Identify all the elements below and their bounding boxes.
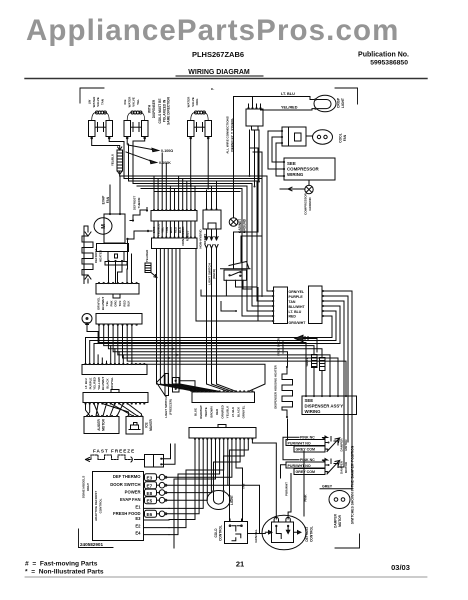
svg-text:TAN: TAN xyxy=(289,300,296,304)
wire LT. BLU to crisp light xyxy=(234,92,316,104)
svg-text:YEL/BLU: YEL/BLU xyxy=(111,154,115,166)
wire central verticals P3 to P7 xyxy=(157,249,220,392)
connector P9A xyxy=(272,287,287,324)
splice S3 (hatched) xyxy=(145,263,157,278)
svg-text:E5: E5 xyxy=(147,498,153,503)
svg-text:WHITE: WHITE xyxy=(204,407,208,416)
bottom rule xyxy=(25,576,427,578)
wire module plug continuations xyxy=(205,245,236,392)
connector P9B xyxy=(309,286,324,324)
thermistor sensor xyxy=(82,314,98,343)
wire fast freeze out xyxy=(161,444,175,464)
wire P9A row7 from center xyxy=(196,249,273,321)
wire P9B nested loops to lower right xyxy=(323,291,352,486)
connector P4 (9-pin) xyxy=(96,282,139,298)
connector P8 (15-pin) xyxy=(189,425,256,440)
svg-text:RED: RED xyxy=(215,409,219,415)
svg-text:5995386850: 5995386850 xyxy=(370,60,408,67)
defrost heater element xyxy=(82,226,93,284)
svg-text:PUR/WHT NO: PUR/WHT NO xyxy=(288,464,311,468)
cabinet ground symbol xyxy=(229,97,238,227)
connector P6A (15-pin) xyxy=(82,363,147,375)
svg-text:YEL/RED: YEL/RED xyxy=(145,250,149,263)
svg-text:YEL/BLK: YEL/BLK xyxy=(226,405,230,418)
svg-text:GROUND: GROUND xyxy=(242,218,246,233)
svg-text:DOOR SWITCH: DOOR SWITCH xyxy=(110,482,140,487)
labels P7 wires xyxy=(194,405,246,419)
svg-text:MOTOR: MOTOR xyxy=(344,439,348,451)
wire module outputs with arrows xyxy=(205,229,218,240)
svg-text:E6: E6 xyxy=(147,512,153,517)
svg-text:HEATER: HEATER xyxy=(98,249,102,262)
wire grn/yel to defrost xyxy=(228,485,265,533)
defrost thermostat xyxy=(130,208,148,222)
svg-text:LT. BLU: LT. BLU xyxy=(231,407,235,418)
svg-text:TAN: TAN xyxy=(242,484,246,490)
svg-text:BLK: BLK xyxy=(127,300,131,307)
svg-text:PURPLE: PURPLE xyxy=(289,295,304,299)
cold control xyxy=(225,519,248,544)
wire pink vertical xyxy=(303,451,305,516)
wire P6A pins up xyxy=(98,346,123,364)
svg-text:WHITE: WHITE xyxy=(305,357,309,366)
see dispenser assy wiring box xyxy=(302,395,357,415)
svg-text:03/03: 03/03 xyxy=(391,563,410,572)
svg-text:WIRING DIAGRAM: WIRING DIAGRAM xyxy=(188,69,250,76)
damper motor xyxy=(329,491,350,509)
svg-text:ORG/WHT: ORG/WHT xyxy=(289,321,307,325)
wire bus lines xyxy=(120,176,267,192)
ice maker box xyxy=(126,415,143,434)
svg-text:0-100K: 0-100K xyxy=(159,161,171,165)
svg-text:DISPENSER ASS'Y: DISPENSER ASS'Y xyxy=(305,404,344,409)
wire right verticals bus-bends to P9A xyxy=(242,176,273,316)
site watermark header xyxy=(26,14,399,48)
svg-text:ORN/RED: ORN/RED xyxy=(220,405,224,418)
svg-text:BLACK: BLACK xyxy=(236,406,240,417)
svg-text:PINK NC: PINK NC xyxy=(300,435,315,439)
light switch (freezer) xyxy=(157,374,196,396)
svg-text:BLUE: BLUE xyxy=(194,408,198,416)
svg-text:GREY COM: GREY COM xyxy=(296,448,316,452)
connector P2 (11-pin) xyxy=(151,209,197,221)
svg-text:E2: E2 xyxy=(135,524,141,529)
wire P6B to auger/ice maker crisscross xyxy=(86,404,142,417)
svg-text:GROUND: GROUND xyxy=(281,340,285,354)
svg-text:ORN/YEL: ORN/YEL xyxy=(242,405,246,418)
svg-text:FAST FREEZE: FAST FREEZE xyxy=(93,449,135,454)
connector J1 (top, to crisp light) xyxy=(246,104,263,130)
wire valve1 left through fuse xyxy=(92,138,120,150)
svg-text:E3: E3 xyxy=(135,516,141,521)
splice S2 (hatched) xyxy=(320,358,326,397)
dispenser housing heater element xyxy=(282,366,293,418)
connector P6B (15-pin) xyxy=(83,390,148,405)
wire evap fan to bus xyxy=(110,177,120,215)
water valve 3 (WATER VALVE ORG) xyxy=(187,96,212,139)
svg-text:COMPRESSOR: COMPRESSOR xyxy=(287,167,320,172)
defrost control (timer) xyxy=(262,515,306,550)
wire YEL/RED to crisp light xyxy=(261,104,316,110)
compressor relay box xyxy=(281,127,306,146)
connector P7 (15-pin) xyxy=(192,390,255,402)
connector P5 (9-pin) xyxy=(96,314,142,326)
drawing sheet corner mark top-left xyxy=(80,88,104,103)
connector P3 (11-pin) xyxy=(152,236,198,248)
fast freeze switch (dashed) xyxy=(86,455,132,460)
coil resistance callout 0-100K xyxy=(126,152,171,165)
svg-text:GREY: GREY xyxy=(322,485,333,489)
wire connector P2 pins up to bus xyxy=(154,176,195,210)
svg-text:E7: E7 xyxy=(147,483,153,488)
evaporator fan motor xyxy=(94,213,129,265)
svg-text:GRN/YEL: GRN/YEL xyxy=(254,529,258,543)
svg-text:R19820: R19820 xyxy=(185,230,189,241)
svg-text:EVAP FAN: EVAP FAN xyxy=(120,497,141,502)
svg-text:LT. BLU: LT. BLU xyxy=(289,310,302,314)
svg-text:TAN: TAN xyxy=(100,99,104,105)
svg-text:c.: c. xyxy=(211,86,214,91)
crisp light lamp xyxy=(314,95,336,112)
wire connector J1 drops to bus xyxy=(250,130,260,187)
svg-text:E1: E1 xyxy=(135,504,141,509)
see compressor wiring box xyxy=(283,158,335,180)
svg-text:LIGHT: LIGHT xyxy=(230,495,234,505)
svg-text:FAN: FAN xyxy=(343,134,347,141)
svg-text:WIRING: WIRING xyxy=(287,172,304,177)
wire P2 to P3 verticals xyxy=(154,221,195,237)
light switch (refrigerator) xyxy=(221,262,258,297)
svg-text:SEE: SEE xyxy=(287,161,296,166)
top rule xyxy=(25,78,427,80)
module (non-hybrid) xyxy=(203,182,221,230)
svg-text:M: M xyxy=(101,224,107,229)
svg-text:YEL/RED: YEL/RED xyxy=(281,106,298,110)
svg-text:MOTOR: MOTOR xyxy=(338,514,342,527)
svg-text:THERM: THERM xyxy=(137,197,141,208)
wire freezer door ground connect xyxy=(313,339,317,353)
svg-text:SWITCHES SHOWN IN THE ‘DAMPER’: SWITCHES SHOWN IN THE ‘DAMPER’ POSITION xyxy=(351,445,355,524)
svg-text:SAME DIRECTION: SAME DIRECTION xyxy=(167,96,171,124)
splice S1 (hatched) xyxy=(312,355,318,397)
junction dots on mid bus xyxy=(156,342,158,344)
svg-text:E4: E4 xyxy=(135,531,141,536)
title underline xyxy=(176,75,263,77)
svg-text:DEF THERMO: DEF THERMO xyxy=(113,474,141,479)
svg-text:E3: E3 xyxy=(147,475,153,480)
svg-text:240582901: 240582901 xyxy=(80,542,103,547)
wire grey to damper motor xyxy=(320,486,352,489)
wire valve3 drops to bus xyxy=(191,138,209,189)
svg-text:(REFR): (REFR) xyxy=(212,269,216,279)
auger motor box xyxy=(84,415,119,434)
svg-text:CONTROL: CONTROL xyxy=(98,498,102,513)
svg-text:YEL: YEL xyxy=(136,99,140,105)
svg-text:SEE: SEE xyxy=(305,398,314,403)
svg-text:POWER: POWER xyxy=(125,490,141,495)
svg-text:R19820: R19820 xyxy=(203,233,207,244)
wire adc plain outputs xyxy=(144,508,170,534)
freezer light lamp xyxy=(207,490,230,510)
wire relay to see-box xyxy=(268,131,284,176)
svg-text:ONLY: ONLY xyxy=(86,483,90,491)
svg-text:* = Non-Illustrated Parts: * = Non-Illustrated Parts xyxy=(25,569,104,576)
svg-text:LIGHT: LIGHT xyxy=(341,98,345,108)
svg-text:E8: E8 xyxy=(147,491,153,496)
svg-text:WIRING: WIRING xyxy=(305,409,322,414)
svg-text:RED/WHT: RED/WHT xyxy=(199,405,203,419)
water valve 2 (ICE WATER VALVE YEL) xyxy=(123,96,148,139)
wire valve1 right to bus xyxy=(109,138,124,179)
svg-text:PUR/WHT: PUR/WHT xyxy=(285,482,289,496)
drawing number 240582901 xyxy=(79,529,114,548)
svg-text:RED: RED xyxy=(289,314,297,318)
svg-text:MOTOR: MOTOR xyxy=(344,461,348,473)
svg-text:BLU/WHT: BLU/WHT xyxy=(289,305,306,309)
svg-text:LT. BLU: LT. BLU xyxy=(281,92,295,96)
wire evap fan and heater into P4 xyxy=(88,239,132,283)
wire bundle P8 to bottom components xyxy=(167,439,276,548)
adc board edge connectors E5-E9 xyxy=(145,474,168,518)
svg-text:CONTROL: CONTROL xyxy=(309,526,313,542)
wire yel/red vertical pair xyxy=(234,148,263,268)
wire heater to damper xyxy=(287,419,289,440)
svg-text:MAKER: MAKER xyxy=(149,418,153,430)
cool fan motor xyxy=(306,130,333,144)
svg-text:PLHS267ZAB6: PLHS267ZAB6 xyxy=(192,50,244,59)
wire P9A staggered stubs xyxy=(201,290,262,311)
svg-text:DISPENSER HOUSING HEATER: DISPENSER HOUSING HEATER xyxy=(274,364,278,408)
svg-text:(FREEZER): (FREEZER) xyxy=(168,399,172,415)
svg-text:FAN: FAN xyxy=(106,196,110,203)
coil resistance callout 0-100 ohm xyxy=(128,145,173,153)
svg-text:GREY COM: GREY COM xyxy=(296,470,316,474)
wire damper switch 2 left stub xyxy=(281,465,287,478)
svg-text:BROWN: BROWN xyxy=(210,406,214,417)
svg-text:ORN/YEL: ORN/YEL xyxy=(110,377,114,390)
svg-text:# = Fast-moving Parts: # = Fast-moving Parts xyxy=(25,561,98,568)
svg-text:GROUND: GROUND xyxy=(308,197,312,211)
damper switch 2 xyxy=(286,458,340,475)
svg-text:ORN/YEL: ORN/YEL xyxy=(289,290,305,294)
wire valve2 right to bus xyxy=(133,138,145,184)
svg-text:0-100Ω: 0-100Ω xyxy=(161,149,173,153)
wire pair down to P2 xyxy=(162,153,166,209)
fuse link F1 (hatched) xyxy=(117,147,123,176)
wire mid bus (8 lines) xyxy=(99,325,346,396)
wire pink link between switches xyxy=(283,437,299,460)
svg-text:MOTOR: MOTOR xyxy=(101,418,105,431)
drawing sheet corner mark top-right xyxy=(335,88,358,104)
svg-text:PINK NC: PINK NC xyxy=(300,458,315,462)
wire wrap bus to connector P6A (3 lines) xyxy=(86,338,341,365)
compressor ground symbol xyxy=(280,181,313,194)
water valve 1 (LW WATER VALVE TAN) xyxy=(88,96,113,139)
svg-text:Publication No.: Publication No. xyxy=(358,52,409,59)
freezer door ground clip xyxy=(295,335,313,341)
labels P9 wires xyxy=(289,290,307,325)
wire pur/wht vertical xyxy=(288,474,291,520)
wire valve2 left to bus xyxy=(127,138,128,181)
svg-text:CONTROL: CONTROL xyxy=(218,525,222,541)
svg-text:PUR/WHT NO: PUR/WHT NO xyxy=(288,441,311,445)
drawing sheet corner mark bottom-right xyxy=(335,534,360,548)
svg-text:ORG: ORG xyxy=(195,98,199,106)
damper switch 1 xyxy=(286,435,340,452)
heater thermostat xyxy=(126,230,152,240)
fast freeze connector xyxy=(145,455,164,468)
svg-text:21: 21 xyxy=(236,560,244,569)
svg-text:DISPENSER: DISPENSER xyxy=(152,99,156,118)
adaptive defrost control board xyxy=(93,472,144,541)
